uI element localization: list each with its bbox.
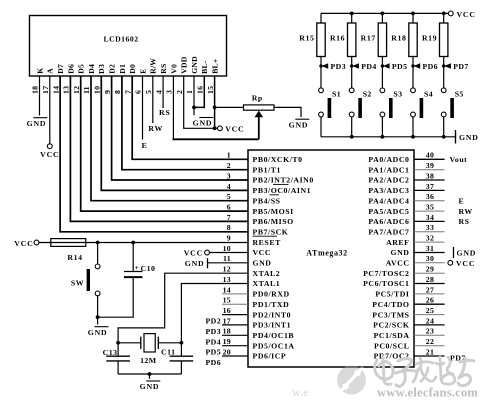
svg-text:4: 4 — [154, 90, 163, 94]
pin 33 stub — [414, 231, 445, 233]
capacitor C13 — [103, 343, 130, 374]
svg-text:SW: SW — [71, 279, 84, 288]
net label RW (LCD side) — [148, 124, 163, 133]
svg-text:13: 13 — [223, 275, 231, 284]
svg-text:PB0/XCK/T0: PB0/XCK/T0 — [253, 155, 303, 164]
svg-text:PB6/MISO: PB6/MISO — [253, 217, 294, 226]
svg-text:PD6/ICP: PD6/ICP — [253, 352, 287, 361]
svg-text:34: 34 — [426, 213, 434, 222]
switch S4 — [411, 88, 433, 137]
svg-text:GND: GND — [289, 120, 309, 129]
wire crystal caps to ground — [118, 373, 181, 375]
svg-text:11: 11 — [82, 86, 91, 94]
wire LCD pin RS stub — [162, 76, 164, 108]
svg-text:8: 8 — [113, 90, 122, 94]
svg-text:PD3: PD3 — [331, 62, 347, 71]
svg-text:20: 20 — [223, 347, 231, 356]
svg-text:LCD1602: LCD1602 — [103, 35, 138, 44]
svg-text:VCC: VCC — [253, 248, 272, 257]
pin 17 stub net PD3 — [206, 325, 249, 336]
svg-text:D5: D5 — [77, 64, 86, 74]
svg-text:PA3/ADC3: PA3/ADC3 — [368, 186, 409, 195]
svg-text:18: 18 — [223, 327, 231, 336]
svg-text:XTAL1: XTAL1 — [253, 279, 281, 288]
ground for Rp — [289, 119, 310, 129]
svg-text:PD4: PD4 — [361, 62, 377, 71]
svg-text:+: + — [135, 263, 139, 272]
wire LCD D4 to ATmega32 pin 5 (PB4) — [91, 76, 248, 201]
power VCC at pin 10 — [184, 249, 210, 258]
svg-text:1: 1 — [227, 151, 231, 160]
svg-text:GND: GND — [27, 119, 47, 128]
svg-text:13: 13 — [62, 86, 71, 94]
svg-text:D7: D7 — [56, 64, 65, 74]
pin 39 stub — [414, 169, 445, 171]
svg-text:RS: RS — [459, 217, 470, 226]
svg-text:10: 10 — [223, 244, 231, 253]
pin 32 stub — [414, 241, 445, 243]
net label E (LCD side) — [142, 141, 148, 150]
capacitor C11 — [161, 343, 193, 374]
svg-text:9: 9 — [103, 90, 112, 94]
svg-text:19: 19 — [223, 337, 231, 346]
svg-text:R17: R17 — [361, 34, 376, 43]
ATmega32 right pin names — [363, 155, 409, 361]
switch SW push-button — [71, 244, 100, 324]
wire LCD pin K (18) to ground — [39, 76, 41, 116]
svg-text:GND: GND — [253, 259, 272, 268]
svg-text:PB2/INT2/AIN0: PB2/INT2/AIN0 — [253, 176, 314, 185]
wire R17 to switch S3 — [381, 57, 383, 88]
svg-text:15: 15 — [223, 296, 231, 305]
pin 21 stub (connected) — [414, 355, 445, 357]
svg-text:R18: R18 — [391, 34, 406, 43]
wire R16 to switch S2 — [351, 57, 353, 88]
wire LCD pin BL- jog to GND net — [194, 76, 204, 107]
svg-text:VCC: VCC — [456, 259, 475, 268]
svg-text:VCC: VCC — [225, 125, 244, 134]
svg-text:D4: D4 — [87, 64, 96, 74]
svg-text:PC5/TDI: PC5/TDI — [375, 290, 409, 299]
svg-text:S5: S5 — [455, 89, 464, 98]
svg-text:38: 38 — [426, 171, 434, 180]
svg-text:Vout: Vout — [450, 155, 468, 164]
svg-text:PC2/SCK: PC2/SCK — [373, 321, 409, 330]
pin 19 stub net PD5 — [206, 346, 249, 357]
svg-text:S1: S1 — [332, 89, 341, 98]
ground terminal of switch rail — [456, 130, 479, 144]
watermark faint fragment — [292, 385, 309, 399]
node arrow PD7 — [442, 62, 469, 71]
svg-text:PC1/SDA: PC1/SDA — [374, 331, 410, 340]
ATmega32 left pin names — [253, 155, 314, 361]
svg-text:S2: S2 — [363, 89, 372, 98]
svg-text:D3: D3 — [97, 64, 106, 74]
wire LCD D2 to ATmega32 pin 3 (PB2) — [112, 76, 248, 180]
svg-text:C11: C11 — [161, 347, 176, 356]
svg-text:PA4/ADC4: PA4/ADC4 — [368, 196, 409, 205]
svg-text:VCC: VCC — [40, 150, 59, 159]
wire R18 to switch S4 — [412, 57, 414, 88]
capacitor C10 (electrolytic) — [98, 243, 156, 318]
power VCC at RESET pull-up — [14, 239, 39, 248]
svg-text:PA7/ADC7: PA7/ADC7 — [368, 228, 409, 237]
svg-text:PB4/SS: PB4/SS — [253, 196, 281, 205]
svg-text:PB1/T1: PB1/T1 — [253, 165, 281, 174]
pin 14 stub — [222, 293, 248, 295]
power VCC for LCD VDD/BL+ — [218, 125, 245, 134]
junction BL- to GND wire — [192, 106, 196, 110]
svg-text:PD7: PD7 — [453, 62, 469, 71]
wire LCD pin R/W stub — [152, 76, 154, 123]
svg-text:RS: RS — [159, 108, 171, 117]
net label RW at pin 35 — [459, 207, 473, 216]
crystal Y1 12M — [118, 334, 181, 365]
power VCC for LCD pin A — [40, 144, 59, 159]
svg-text:18: 18 — [31, 86, 40, 94]
node arrow PD6 — [411, 62, 438, 71]
wire LCD D7 to ATmega32 pin 8 (PB7) — [60, 76, 248, 232]
svg-text:VCC: VCC — [14, 239, 33, 248]
svg-text:14: 14 — [223, 285, 231, 294]
svg-text:S3: S3 — [393, 89, 402, 98]
ground for crystal — [140, 381, 161, 391]
svg-text:RESET: RESET — [253, 238, 282, 247]
pin 28 stub (connected) — [414, 283, 445, 285]
svg-text:Rp: Rp — [252, 94, 263, 103]
svg-text:12: 12 — [223, 265, 231, 274]
svg-text:GND: GND — [88, 328, 108, 337]
svg-text:25: 25 — [426, 306, 434, 315]
resistor R18 — [391, 13, 417, 56]
svg-text:PA1/ADC1: PA1/ADC1 — [368, 165, 409, 174]
ATmega32 right pin numbers — [426, 151, 434, 357]
svg-text:PD6: PD6 — [423, 62, 439, 71]
node arrow PD4 — [350, 62, 377, 71]
svg-text:PD4/OC1B: PD4/OC1B — [253, 331, 295, 340]
svg-text:12M: 12M — [140, 356, 157, 365]
svg-text:RS: RS — [159, 64, 168, 74]
pin 26 stub (connected) — [414, 303, 445, 305]
LCD pin number labels (rotated) — [31, 86, 215, 94]
svg-text:BL-: BL- — [200, 60, 209, 74]
pin 24 stub (connected) — [414, 324, 445, 326]
svg-text:PC3/TMS: PC3/TMS — [372, 310, 409, 319]
svg-text:E: E — [142, 141, 148, 150]
svg-text:PA5/ADC5: PA5/ADC5 — [368, 207, 409, 216]
svg-text:PC7/TOSC2: PC7/TOSC2 — [363, 269, 409, 278]
power VCC terminal of rail — [448, 10, 475, 19]
svg-text:40: 40 — [426, 151, 434, 160]
svg-text:7: 7 — [227, 213, 231, 222]
junctions on switch ground rail — [350, 135, 446, 139]
IC U1 ATmega32 body — [248, 150, 414, 367]
junction C10 tap — [131, 241, 135, 245]
svg-text:VDD: VDD — [180, 56, 189, 74]
svg-text:3: 3 — [165, 90, 174, 94]
wire LCD D1 to ATmega32 pin 2 (PB1) — [122, 76, 248, 170]
svg-text:GND: GND — [185, 259, 205, 268]
svg-text:PD0/RXD: PD0/RXD — [253, 290, 290, 299]
resistor R19 — [422, 13, 448, 56]
svg-text:E: E — [459, 197, 465, 206]
pin 25 stub — [414, 314, 445, 316]
pin 23 stub — [414, 334, 445, 336]
wire LCD pin GND to ground — [193, 76, 195, 115]
svg-text:32: 32 — [426, 234, 434, 243]
svg-text:GND: GND — [457, 249, 477, 258]
ground for LCD pin K — [27, 118, 48, 128]
pin 38 stub (connected) — [414, 179, 445, 181]
svg-text:8: 8 — [227, 223, 231, 232]
junction crystal right — [180, 341, 184, 345]
svg-text:3: 3 — [227, 171, 231, 180]
svg-text:AREF: AREF — [386, 238, 409, 247]
ground at pin 31 — [454, 247, 477, 258]
wire VCC rail (top right) — [321, 12, 448, 14]
junction SW tap — [96, 241, 100, 245]
node arrow PD3 — [319, 62, 346, 71]
watermark Chinese calligraphy — [375, 356, 474, 386]
svg-text:GND: GND — [193, 119, 213, 128]
svg-text:27: 27 — [426, 285, 434, 294]
svg-text:K: K — [35, 68, 44, 74]
power VCC at pin 30 — [448, 259, 475, 268]
svg-text:R15: R15 — [299, 34, 314, 43]
junction crystal left — [116, 341, 120, 345]
junction ground tap — [148, 372, 152, 376]
pin 16 stub net PD2 — [206, 315, 249, 326]
svg-text:RW: RW — [148, 124, 163, 133]
svg-text:12: 12 — [72, 86, 81, 94]
svg-text:21: 21 — [426, 347, 434, 356]
svg-text:VCC: VCC — [457, 10, 476, 19]
Rp wiper arrow — [255, 111, 264, 140]
switch S3 — [380, 88, 402, 137]
pin 15 stub — [222, 303, 248, 305]
svg-text:9: 9 — [227, 234, 231, 243]
svg-text:15: 15 — [206, 86, 215, 94]
junction BL+ at VCC node — [213, 126, 217, 130]
svg-text:PD5/OC1A: PD5/OC1A — [253, 341, 295, 350]
wire LCD pin VDD to VCC node — [184, 76, 219, 128]
wire LCD D6 to ATmega32 pin 7 (PB6) — [70, 76, 248, 221]
resistor R15 — [299, 13, 325, 56]
svg-text:29: 29 — [426, 265, 434, 274]
svg-text:C13: C13 — [103, 348, 118, 357]
svg-text:26: 26 — [426, 296, 434, 305]
svg-text:ATmega32: ATmega32 — [306, 249, 348, 258]
wire XTAL2 pin 12 to crystal — [118, 273, 248, 343]
svg-text:31: 31 — [426, 244, 434, 253]
wire LCD D0 to ATmega32 pin 1 (PB0) — [132, 76, 248, 159]
pin 11 GND stub — [208, 258, 249, 268]
junctions on VCC rail — [350, 12, 446, 16]
potentiometer Rp body — [244, 94, 275, 111]
svg-text:24: 24 — [426, 316, 434, 325]
pin 37 stub (connected) — [414, 189, 445, 191]
LCD pin name labels (rotated) — [35, 56, 219, 74]
svg-text:V0: V0 — [169, 64, 178, 74]
svg-text:10: 10 — [93, 86, 102, 94]
ground label at pin 11 — [185, 259, 205, 268]
pin 40 stub (connected) — [414, 158, 445, 160]
wire LCD D3 to ATmega32 pin 4 (PB3) — [101, 76, 248, 190]
svg-text:4: 4 — [227, 182, 231, 191]
pin 30 stub — [414, 262, 445, 264]
svg-text:5: 5 — [144, 90, 153, 94]
svg-text:17: 17 — [41, 86, 50, 94]
svg-text:30: 30 — [426, 254, 434, 263]
wire BL+ tap to Rp left terminal — [215, 106, 244, 108]
ground for LCD pin GND — [193, 118, 214, 128]
svg-text:R16: R16 — [330, 34, 345, 43]
svg-text:w.e: w.e — [292, 385, 309, 399]
svg-text:11: 11 — [223, 254, 231, 263]
IC LCD1602 module body — [30, 16, 227, 77]
wire switch ground rail — [321, 136, 456, 138]
pin 34 stub (connected) — [414, 220, 445, 222]
svg-text:PB7/SCK: PB7/SCK — [253, 228, 289, 237]
svg-text:PD2/INT0: PD2/INT0 — [253, 310, 292, 319]
ATmega32 left pin numbers — [223, 151, 231, 357]
svg-text:PC4/TDO: PC4/TDO — [372, 300, 409, 309]
svg-text:PD6: PD6 — [206, 358, 222, 367]
svg-text:C10: C10 — [141, 264, 156, 273]
resistor R16 — [330, 13, 356, 56]
net label E at pin 36 — [459, 197, 465, 206]
svg-text:PA6/ADC6: PA6/ADC6 — [368, 217, 409, 226]
svg-text:PB5/MOSI: PB5/MOSI — [253, 207, 294, 216]
pin 31 stub (connected) — [414, 252, 445, 254]
pin 22 stub — [414, 345, 445, 347]
wire ground stub — [149, 374, 151, 379]
net label RS at pin 34 — [459, 217, 470, 226]
svg-text:28: 28 — [426, 275, 434, 284]
svg-text:R/W: R/W — [149, 58, 158, 74]
svg-text:PD5: PD5 — [392, 62, 408, 71]
svg-text:www.elecfans.com: www.elecfans.com — [377, 386, 478, 400]
svg-text:22: 22 — [426, 337, 434, 346]
resistor R17 — [361, 13, 387, 56]
svg-text:39: 39 — [426, 161, 434, 170]
svg-text:AVCC: AVCC — [386, 259, 410, 268]
svg-text:PD1/TXD: PD1/TXD — [253, 300, 290, 309]
svg-text:2: 2 — [175, 90, 184, 94]
svg-text:PC0/SCL: PC0/SCL — [374, 341, 409, 350]
svg-text:37: 37 — [426, 182, 434, 191]
pin 18 stub net PD4 — [206, 335, 249, 346]
svg-text:6: 6 — [134, 90, 143, 94]
svg-text:R19: R19 — [422, 34, 437, 43]
junction Rp tap on BL+ wire — [213, 106, 217, 110]
wire RESET pin 9 to R14 node — [39, 242, 248, 244]
svg-text:33: 33 — [426, 223, 434, 232]
pin 35 stub — [414, 210, 445, 212]
switch S1 — [319, 88, 341, 137]
svg-text:PD4: PD4 — [206, 337, 222, 346]
wire Rp right terminal to ground — [274, 107, 301, 117]
svg-text:6: 6 — [227, 203, 231, 212]
watermark url text — [377, 386, 478, 400]
svg-text:36: 36 — [426, 192, 434, 201]
svg-text:S4: S4 — [424, 89, 433, 98]
svg-text:XTAL2: XTAL2 — [253, 269, 281, 278]
node arrow PD5 — [381, 62, 408, 71]
switch S2 — [349, 88, 371, 137]
svg-text:1: 1 — [185, 90, 194, 94]
switch S5 — [441, 88, 463, 137]
svg-text:E: E — [138, 68, 147, 73]
svg-text:PB3/OC0/AIN1: PB3/OC0/AIN1 — [253, 186, 312, 195]
wire LCD pin V0 to Rp wiper — [173, 76, 259, 139]
svg-text:A: A — [46, 68, 55, 74]
svg-text:GND: GND — [391, 248, 410, 257]
svg-text:16: 16 — [196, 86, 205, 94]
svg-text:PD5: PD5 — [206, 348, 222, 357]
net label PD7 at pin 21 — [450, 354, 466, 363]
svg-text:PD2: PD2 — [206, 317, 222, 326]
svg-text:35: 35 — [426, 203, 434, 212]
svg-text:16: 16 — [223, 306, 231, 315]
net label Vout at pin 40 — [450, 155, 468, 164]
svg-text:VCC: VCC — [184, 249, 203, 258]
svg-text:D0: D0 — [128, 64, 137, 74]
pin 20 stub net PD6 — [206, 356, 249, 367]
svg-text:D6: D6 — [66, 64, 75, 74]
svg-text:PA0/ADC0: PA0/ADC0 — [368, 155, 409, 164]
svg-text:RW: RW — [459, 207, 473, 216]
pin 36 stub — [414, 200, 445, 202]
svg-text:R14: R14 — [67, 253, 82, 262]
svg-text:PD3/INT1: PD3/INT1 — [253, 321, 292, 330]
wire LCD D5 to ATmega32 pin 6 (PB5) — [81, 76, 248, 211]
wire XTAL1 pin 13 to crystal — [181, 284, 248, 343]
svg-text:BL+: BL+ — [211, 59, 220, 74]
svg-text:2: 2 — [227, 161, 231, 170]
svg-text:23: 23 — [426, 327, 434, 336]
net label RS (LCD side) — [159, 108, 171, 117]
svg-text:D1: D1 — [118, 64, 127, 74]
svg-text:14: 14 — [51, 86, 60, 94]
pin 29 stub — [414, 272, 445, 274]
svg-text:PD3: PD3 — [206, 327, 222, 336]
svg-text:7: 7 — [123, 90, 132, 94]
junction C10 return — [96, 315, 100, 319]
svg-text:D2: D2 — [108, 64, 117, 74]
svg-text:GND: GND — [140, 382, 160, 391]
ground for SW — [88, 327, 109, 337]
wire R19 to switch S5 — [443, 57, 445, 88]
svg-text:PA2/ADC2: PA2/ADC2 — [368, 176, 409, 185]
svg-text:GND: GND — [459, 133, 479, 142]
wire LCD pin BL+ down to VCC node — [214, 76, 216, 128]
pin 10 VCC stub — [210, 252, 249, 254]
resistor R14 — [51, 239, 86, 262]
svg-text:GND: GND — [190, 56, 199, 74]
svg-text:5: 5 — [227, 192, 231, 201]
svg-text:PC6/TOSC1: PC6/TOSC1 — [363, 279, 409, 288]
svg-text:17: 17 — [223, 316, 231, 325]
pin 27 stub — [414, 293, 445, 295]
wire LCD pin A (17) to VCC — [49, 76, 51, 144]
wire LCD pin E stub — [142, 76, 144, 140]
watermark logo (elecfans) — [337, 366, 366, 395]
wire R15 to switch S1 — [320, 57, 322, 88]
